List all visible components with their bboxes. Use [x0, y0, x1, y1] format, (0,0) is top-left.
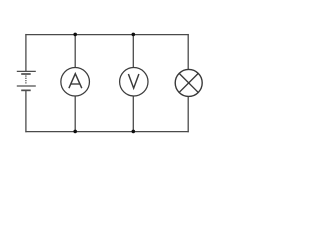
node junction bottom ammeter: [73, 130, 77, 134]
battery: [17, 71, 36, 90]
wire voltmeter branch bottom: [132, 96, 134, 131]
node junction bottom voltmeter: [132, 130, 136, 134]
wire ammeter branch top: [74, 35, 76, 68]
wire left (battery cell 2 down to bottom bus): [25, 90, 27, 132]
node junction top voltmeter: [132, 33, 136, 37]
ammeter A: [61, 67, 90, 96]
wire right (top bus to lamp): [187, 34, 189, 70]
wire right (lamp to bottom bus): [187, 96, 189, 132]
wire left (top bus down to battery cell 1): [25, 34, 27, 71]
voltmeter V: [120, 68, 148, 96]
wire ammeter branch bottom: [74, 96, 76, 131]
wire top bus: [25, 34, 188, 36]
node junction top ammeter: [73, 33, 77, 37]
lamp: [175, 69, 202, 96]
wire voltmeter branch top: [132, 35, 134, 68]
wire bottom bus: [25, 131, 188, 133]
